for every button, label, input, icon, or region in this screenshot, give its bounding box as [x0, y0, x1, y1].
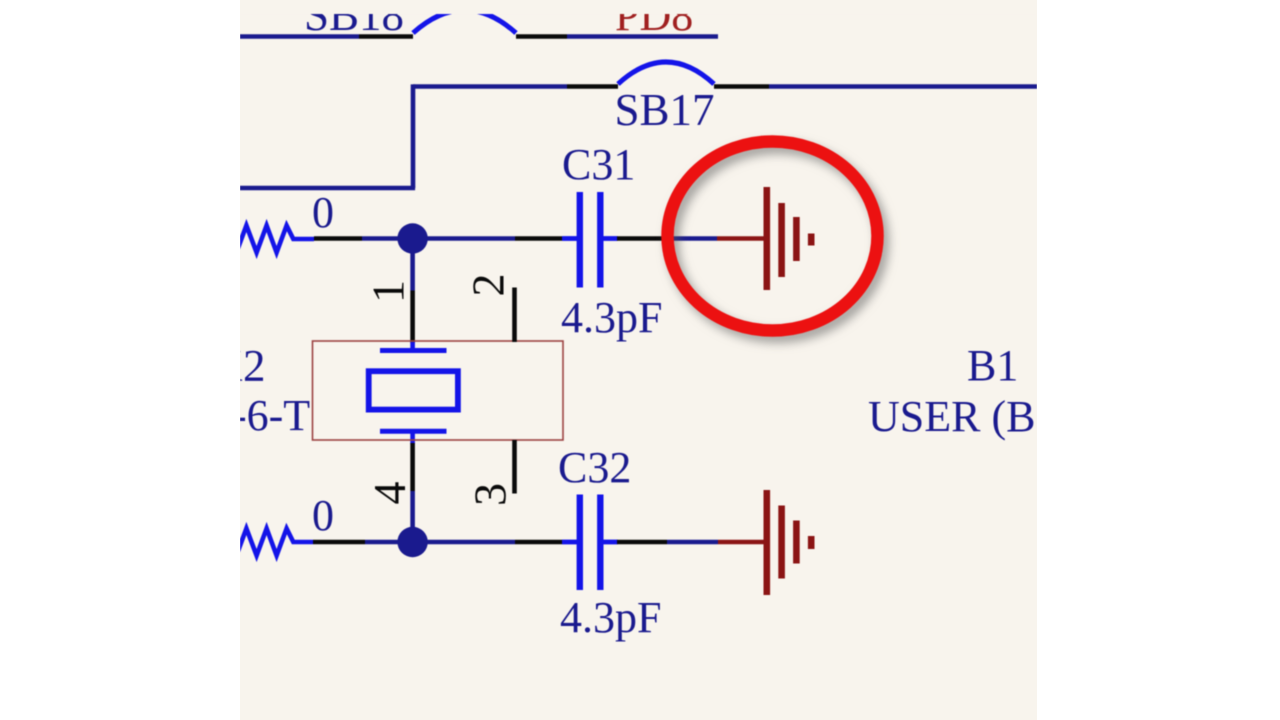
- svg-text:X2: X2: [240, 341, 266, 391]
- svg-text:C31: C31: [562, 140, 635, 189]
- svg-text:4: 4: [364, 482, 415, 505]
- svg-text:2: 2: [463, 274, 514, 297]
- svg-text:4.3pF: 4.3pF: [560, 593, 661, 642]
- svg-text:-6-T: -6-T: [240, 391, 310, 440]
- svg-text:B1: B1: [967, 341, 1018, 390]
- svg-text:0: 0: [312, 188, 334, 237]
- svg-text:3: 3: [465, 483, 516, 506]
- svg-text:1: 1: [363, 280, 414, 303]
- svg-text:SB17: SB17: [615, 85, 715, 135]
- svg-text:4.3pF: 4.3pF: [561, 293, 662, 342]
- svg-text:0: 0: [312, 491, 334, 540]
- svg-text:C32: C32: [558, 443, 631, 492]
- svg-text:USER (B1): USER (B1): [868, 392, 1037, 441]
